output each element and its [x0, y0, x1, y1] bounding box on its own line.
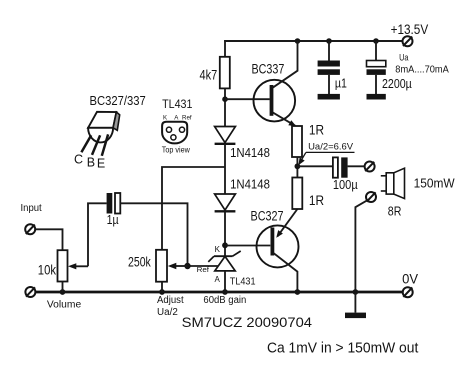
- terminal +13.5V: [403, 36, 413, 46]
- node BC327 collector on rail: [295, 289, 301, 295]
- node TL431 anode on rail: [222, 289, 228, 295]
- svg-text:TL431: TL431: [230, 277, 256, 288]
- svg-text:1N4148: 1N4148: [230, 176, 270, 191]
- svg-text:8R: 8R: [388, 203, 402, 218]
- svg-text:Adjust: Adjust: [157, 295, 184, 306]
- svg-text:60dB gain: 60dB gain: [203, 295, 246, 306]
- node 250k on rail: [159, 289, 165, 295]
- svg-text:+13.5V: +13.5V: [391, 21, 429, 37]
- svg-text:BC327: BC327: [251, 208, 284, 223]
- svg-text:1µ: 1µ: [107, 213, 119, 227]
- svg-text:BC327/337: BC327/337: [90, 94, 146, 108]
- potentiometer 10k: [58, 250, 89, 292]
- node BC337 base junction: [222, 96, 228, 102]
- svg-text:Volume: Volume: [47, 299, 82, 310]
- wire C1 to ref node: [120, 203, 187, 266]
- svg-text:K: K: [215, 245, 221, 254]
- terminal output plus: [365, 162, 375, 172]
- capacitor 100u: [333, 157, 348, 177]
- svg-text:BC337: BC337: [252, 62, 285, 77]
- wire 100u to output terminal: [348, 165, 365, 167]
- svg-text:1N4148: 1N4148: [230, 145, 270, 160]
- wire branch to 250k top: [162, 167, 225, 250]
- svg-text:1R: 1R: [309, 192, 324, 208]
- node junction BC337 collector on rail: [295, 38, 301, 44]
- svg-text:A: A: [215, 275, 221, 284]
- node 10k on rail: [60, 289, 66, 295]
- speaker LS: [381, 168, 405, 198]
- wire D1 to D2: [224, 144, 226, 194]
- node K junction: [222, 242, 228, 248]
- terminal input: [25, 224, 35, 234]
- wire output node to 100u: [297, 165, 333, 167]
- svg-text:4k7: 4k7: [200, 67, 218, 82]
- wire top +13.5V rail: [224, 40, 403, 42]
- resistor 1R upper: [292, 126, 302, 157]
- svg-text:10k: 10k: [38, 263, 56, 278]
- svg-text:2200µ: 2200µ: [382, 77, 412, 91]
- svg-text:1R: 1R: [309, 122, 324, 138]
- svg-text:Top view: Top view: [162, 145, 191, 155]
- node speaker return on rail: [353, 289, 359, 295]
- svg-text:SM7UCZ 20090704: SM7UCZ 20090704: [182, 314, 313, 330]
- capacitor u1: [318, 41, 340, 100]
- capacitor 2200u: [367, 41, 386, 100]
- package drawing BC327/337 TO-92: [81, 112, 119, 156]
- wire BC327 base: [225, 245, 270, 247]
- resistor 4k7: [220, 57, 230, 89]
- transistor Q2 BC327: [257, 209, 299, 292]
- svg-text:µ1: µ1: [335, 76, 347, 90]
- diode D1 1N4148: [215, 127, 236, 144]
- package drawing TL431 top view: [162, 122, 187, 144]
- svg-text:250k: 250k: [128, 254, 152, 270]
- node ref junction: [184, 263, 190, 269]
- svg-text:Ua: Ua: [399, 52, 409, 63]
- node junction 2200u cap on rail: [373, 38, 379, 44]
- svg-text:Ca 1mV in > 150mW out: Ca 1mV in > 150mW out: [267, 340, 419, 357]
- node output Ua/2: [295, 163, 301, 169]
- svg-text:E: E: [97, 157, 105, 171]
- wire rail to 4k7: [224, 40, 226, 57]
- wire 4k7 to diode D1: [224, 88, 226, 126]
- svg-text:C: C: [74, 153, 83, 167]
- wire D2 to node K: [224, 212, 226, 257]
- svg-text:8mA....70mA: 8mA....70mA: [395, 64, 449, 75]
- potentiometer 250k: [156, 250, 188, 292]
- wire 1R to output node: [296, 157, 298, 178]
- wire 10k wiper to C1: [88, 203, 107, 266]
- terminal output minus: [366, 192, 376, 202]
- transistor Q1 BC337: [253, 41, 297, 126]
- capacitor 1u: [107, 193, 121, 214]
- resistor 1R lower: [292, 178, 302, 210]
- wire Ref to TL431: [188, 265, 219, 267]
- svg-text:Ua/2=6.6V: Ua/2=6.6V: [308, 142, 354, 153]
- svg-text:Input: Input: [21, 203, 42, 214]
- svg-text:Ref: Ref: [197, 265, 210, 274]
- svg-text:Ua/2: Ua/2: [157, 307, 178, 318]
- diode D2 1N4148: [215, 194, 236, 211]
- terminal ground left: [25, 287, 35, 297]
- svg-text:150mW: 150mW: [414, 176, 456, 191]
- wire base BC337: [225, 98, 270, 100]
- svg-text:Ref: Ref: [182, 115, 192, 122]
- label Ua/2=6.6V underlined with arrow: [298, 142, 354, 166]
- svg-text:B: B: [87, 155, 95, 169]
- wire speaker return to 0V: [355, 201, 366, 292]
- terminal 0V right: [403, 287, 413, 297]
- wire 0V rail: [35, 291, 403, 294]
- wire input to 10k pot: [35, 229, 62, 250]
- node junction u1 cap on rail: [326, 38, 332, 44]
- TL431 U1: [208, 251, 240, 292]
- ground symbol: [345, 292, 366, 318]
- svg-text:TL431: TL431: [162, 97, 193, 111]
- svg-text:0V: 0V: [402, 272, 418, 287]
- svg-text:100µ: 100µ: [333, 177, 358, 192]
